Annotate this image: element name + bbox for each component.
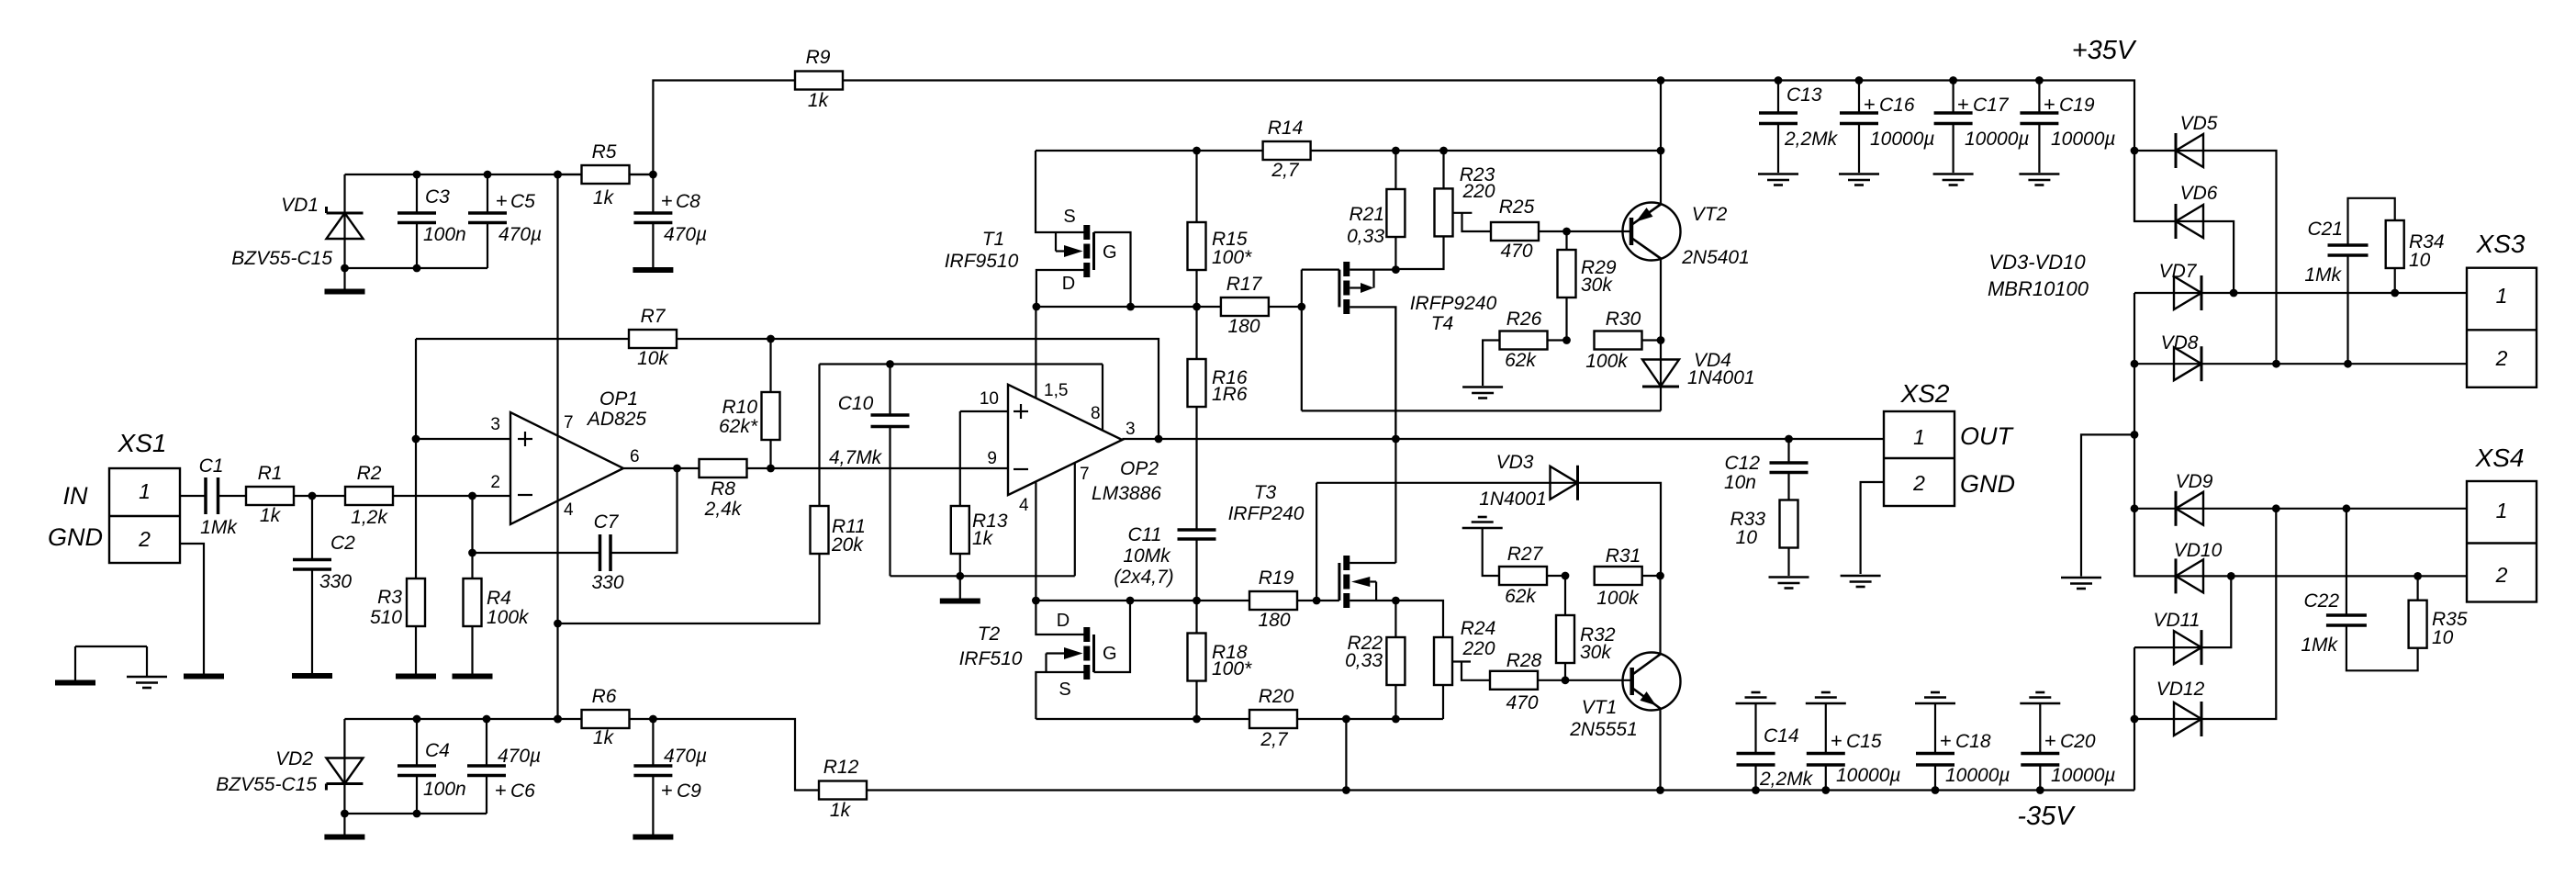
svg-text:IRFP240: IRFP240: [1228, 503, 1305, 524]
wire OP1 output: [623, 465, 700, 473]
resistor R4: [464, 578, 531, 674]
resistor R7: [416, 306, 677, 369]
svg-text:4: 4: [1019, 496, 1029, 515]
svg-text:VD12: VD12: [2156, 679, 2205, 700]
svg-text:2,4k: 2,4k: [704, 499, 743, 520]
resistor R22: [1345, 601, 1405, 719]
connector XS3: [2467, 230, 2537, 387]
svg-text:IN: IN: [63, 482, 89, 510]
wire source rail to -35V: [1345, 719, 1347, 791]
ground R26: [1462, 387, 1503, 399]
resistor R29: [1558, 231, 1617, 341]
op-amp OP1: [490, 388, 646, 524]
ground VD2: [324, 814, 364, 837]
ground XS1 pin2: [184, 674, 224, 679]
svg-text:3: 3: [1126, 420, 1136, 439]
resistor R30: [1585, 309, 1664, 372]
svg-text:4,7Mk: 4,7Mk: [829, 447, 883, 468]
svg-text:0,33: 0,33: [1345, 650, 1383, 671]
svg-text:180: 180: [1258, 610, 1290, 631]
resistor R28: [1490, 650, 1569, 713]
svg-text:OP1: OP1: [599, 388, 638, 410]
svg-text:1k: 1k: [593, 187, 615, 208]
diode VD8: [2134, 332, 2467, 381]
resistor R25: [1491, 197, 1571, 262]
resistor R1: [246, 463, 294, 526]
diode VD11: [2134, 576, 2231, 665]
svg-text:R5: R5: [592, 141, 617, 163]
svg-text:R14: R14: [1268, 118, 1304, 139]
svg-text:20k: 20k: [831, 534, 864, 556]
wire T2 source rail: [1036, 715, 1443, 724]
svg-text:7: 7: [1080, 465, 1090, 484]
transistor T3 IRFP240: [1228, 482, 1400, 608]
svg-text:S: S: [1063, 207, 1075, 227]
resistor R13: [951, 411, 1008, 576]
capacitor C22: [2301, 509, 2417, 671]
svg-text:BZV55-C15: BZV55-C15: [231, 248, 332, 269]
svg-text:C15: C15: [1846, 731, 1882, 752]
svg-text:R3: R3: [377, 587, 402, 608]
resistor R26: [1483, 309, 1571, 386]
svg-text:1R6: 1R6: [1212, 384, 1248, 405]
capacitor C19: [2020, 81, 2115, 174]
svg-text:VD2: VD2: [275, 748, 313, 769]
svg-text:2: 2: [1912, 471, 1925, 495]
svg-text:C22: C22: [2303, 590, 2339, 612]
svg-text:220: 220: [1462, 638, 1495, 659]
wire T3 gate node: [1313, 483, 1339, 605]
svg-text:R2: R2: [357, 463, 382, 484]
diode VD12: [2131, 509, 2277, 736]
svg-text:R12: R12: [823, 757, 859, 778]
svg-text:+: +: [495, 779, 507, 802]
svg-text:C2: C2: [330, 533, 355, 554]
svg-text:10Mk: 10Mk: [1123, 545, 1171, 567]
svg-text:1,2k: 1,2k: [351, 507, 388, 528]
svg-text:R7: R7: [641, 306, 666, 327]
svg-text:2: 2: [138, 527, 151, 551]
svg-text:G: G: [1103, 644, 1117, 664]
wire R1 to R2 with node: [294, 492, 345, 500]
svg-text:C10: C10: [838, 393, 874, 414]
resistor R18: [1188, 601, 1253, 719]
svg-text:C5: C5: [510, 191, 535, 212]
capacitor C18: [1916, 703, 2010, 791]
resistor R5: [558, 141, 654, 208]
wire R7 to OP2 output feedback: [677, 335, 1162, 444]
svg-text:2,2Mk: 2,2Mk: [1759, 769, 1814, 790]
capacitor C3: [398, 174, 466, 268]
svg-text:30k: 30k: [1580, 642, 1612, 663]
svg-text:XS3: XS3: [2476, 230, 2526, 258]
op-amp OP2: [980, 381, 1161, 515]
svg-text:10n: 10n: [1724, 472, 1756, 493]
svg-text:100*: 100*: [1212, 247, 1252, 268]
svg-text:1k: 1k: [808, 90, 830, 111]
svg-text:R1: R1: [258, 463, 283, 484]
svg-text:1: 1: [2496, 499, 2508, 522]
capacitor C7 feedback: [473, 468, 678, 593]
ground R33: [1769, 578, 1809, 589]
svg-text:R8: R8: [711, 478, 735, 500]
svg-text:100n: 100n: [423, 779, 466, 800]
svg-text:AD825: AD825: [586, 409, 647, 430]
svg-text:XS4: XS4: [2475, 444, 2525, 472]
wire OP1 supply vertical: [554, 171, 562, 724]
svg-text:IRF510: IRF510: [959, 648, 1023, 669]
net label -35V: [2017, 802, 2076, 831]
svg-text:D: D: [1062, 274, 1075, 294]
diode VD6: [2134, 151, 2234, 293]
wire chassis link: [75, 646, 147, 680]
zener diode VD2: [216, 748, 363, 814]
ground C2: [292, 673, 332, 679]
wire OP1 noninverting node: [412, 339, 510, 578]
svg-text:1k: 1k: [593, 727, 615, 748]
ground R3: [396, 674, 436, 679]
svg-text:30k: 30k: [1581, 275, 1613, 296]
capacitor C11: [1114, 524, 1215, 601]
svg-text:T3: T3: [1254, 482, 1277, 503]
transistor T2 IRF510: [959, 601, 1130, 719]
diode VD5: [2134, 113, 2277, 364]
ground VD1: [325, 268, 365, 292]
connector XS1: [48, 429, 180, 563]
svg-text:IRF9510: IRF9510: [945, 251, 1019, 272]
svg-text:+: +: [1831, 729, 1842, 752]
wire VT1 emitter to -35V: [1659, 709, 1661, 791]
zener diode VD1: [231, 195, 363, 269]
wire VT1 collector: [1659, 576, 1661, 655]
svg-text:330: 330: [319, 571, 352, 592]
diode VD7: [2134, 261, 2467, 310]
svg-text:S: S: [1058, 679, 1070, 700]
svg-text:R6: R6: [592, 686, 617, 707]
svg-text:XS1: XS1: [118, 429, 167, 457]
wire T1 source rail: [1036, 147, 1262, 155]
svg-text:2N5401: 2N5401: [1681, 247, 1750, 268]
svg-text:OP2: OP2: [1120, 458, 1159, 479]
wire R2 to OP1 inverting input: [393, 492, 510, 500]
ground C17: [1933, 174, 1974, 185]
svg-text:100n: 100n: [423, 224, 466, 245]
wire R11 bottom to negative supply: [558, 554, 820, 623]
svg-text:470µ: 470µ: [664, 224, 707, 245]
svg-text:330: 330: [591, 572, 623, 593]
ground R4: [453, 674, 493, 679]
svg-text:VD9: VD9: [2176, 471, 2213, 492]
svg-text:XS2: XS2: [1900, 379, 1950, 408]
wire ground line OP2 pin7: [890, 463, 1075, 580]
svg-text:LM3886: LM3886: [1092, 483, 1161, 504]
svg-text:10: 10: [2432, 627, 2454, 648]
svg-text:1Mk: 1Mk: [2301, 635, 2338, 656]
wire OP2 pins 1,5 vertical: [1035, 307, 1036, 398]
svg-text:MBR10100: MBR10100: [1988, 277, 2089, 300]
wire T3 T4 drain to output: [1394, 307, 1396, 563]
svg-text:7: 7: [564, 413, 574, 432]
svg-text:R4: R4: [487, 588, 511, 609]
resistor R8: [700, 459, 747, 520]
ground C13: [1758, 174, 1798, 185]
wire OP2 pin4 vertical: [1035, 481, 1036, 601]
svg-text:100*: 100*: [1212, 658, 1252, 679]
wire T1 drain rail: [1033, 303, 1221, 311]
transistor VT1 2N5551: [1565, 653, 1681, 741]
resistor R19: [1249, 567, 1316, 631]
svg-text:VD1: VD1: [281, 195, 319, 216]
svg-text:+: +: [2044, 729, 2056, 752]
svg-text:-35V: -35V: [2017, 802, 2076, 831]
svg-text:62k: 62k: [1505, 586, 1537, 607]
svg-text:C14: C14: [1764, 725, 1799, 747]
svg-text:+: +: [661, 189, 673, 212]
svg-text:100k: 100k: [487, 607, 530, 628]
svg-text:D: D: [1057, 611, 1070, 631]
wire OP2 output rail: [1122, 435, 1884, 444]
resistor R12: [819, 757, 867, 821]
capacitor C6: [467, 719, 541, 802]
ground R13: [940, 576, 980, 601]
wire XS1 pin1 to C1: [180, 495, 206, 497]
svg-text:1Mk: 1Mk: [2304, 264, 2342, 286]
resistor R15: [1188, 151, 1253, 307]
diode VD3: [1479, 452, 1661, 576]
ground center tap: [2061, 578, 2101, 589]
svg-text:2: 2: [490, 473, 500, 492]
svg-text:VT2: VT2: [1692, 204, 1728, 225]
wire VT2 collector: [1660, 259, 1662, 360]
svg-text:62k*: 62k*: [719, 416, 758, 437]
svg-text:IRFP9240: IRFP9240: [1410, 293, 1497, 314]
svg-text:C4: C4: [425, 740, 450, 761]
svg-text:C9: C9: [677, 781, 701, 802]
resistor R10: [719, 339, 780, 468]
resistor R16: [1188, 307, 1248, 530]
resistor R9: [653, 47, 843, 174]
capacitor C10: [829, 365, 910, 577]
svg-text:180: 180: [1227, 316, 1260, 337]
svg-text:VD10: VD10: [2174, 540, 2223, 561]
svg-text:1: 1: [139, 479, 151, 503]
svg-text:GND: GND: [48, 523, 103, 551]
svg-text:+: +: [1957, 93, 1969, 116]
svg-text:R30: R30: [1606, 309, 1641, 330]
svg-text:R31: R31: [1606, 545, 1641, 567]
svg-text:62k: 62k: [1505, 350, 1537, 371]
diode VD9: [2134, 471, 2467, 526]
svg-text:R24: R24: [1461, 618, 1496, 639]
svg-text:10000µ: 10000µ: [2051, 765, 2116, 786]
resistor R14: [1263, 118, 1311, 181]
svg-text:VD3: VD3: [1496, 452, 1534, 473]
wire R8 to OP2 inverting input: [747, 465, 1009, 473]
svg-text:2N5551: 2N5551: [1569, 719, 1638, 740]
connector XS2: [1884, 379, 2015, 506]
svg-text:2,7: 2,7: [1271, 160, 1300, 181]
wire center tap ground: [2081, 434, 2134, 576]
svg-text:470: 470: [1506, 692, 1538, 713]
diode VD4: [1642, 350, 1755, 410]
svg-text:3: 3: [490, 415, 500, 434]
svg-text:10k: 10k: [637, 348, 669, 369]
wire T4 gate node: [1297, 270, 1339, 411]
wire R14 to VT2 branch: [1311, 147, 1664, 155]
resistor R32: [1556, 576, 1616, 680]
ground R27 inverted: [1462, 517, 1503, 528]
wire XS1 pin2 to ground: [180, 544, 204, 674]
capacitor C15: [1807, 703, 1901, 791]
svg-text:VD11: VD11: [2154, 610, 2201, 631]
wire T3 gate to VD3: [1316, 482, 1550, 484]
svg-text:510: 510: [370, 607, 402, 628]
potentiometer R24: [1395, 601, 1495, 719]
svg-text:+: +: [661, 779, 673, 802]
svg-text:1: 1: [2496, 284, 2508, 308]
svg-text:1N4001: 1N4001: [1687, 367, 1755, 388]
svg-text:2: 2: [2495, 563, 2508, 587]
svg-text:10000µ: 10000µ: [1870, 129, 1935, 150]
svg-text:1: 1: [1913, 425, 1925, 449]
svg-text:R20: R20: [1259, 686, 1294, 707]
svg-text:C19: C19: [2059, 95, 2095, 116]
potentiometer R23: [1395, 151, 1495, 269]
resistor R31: [1595, 545, 1664, 609]
svg-text:C20: C20: [2060, 731, 2096, 752]
capacitor C13: [1759, 81, 1839, 174]
svg-text:470µ: 470µ: [664, 746, 707, 767]
wire negative rail bottom: [341, 774, 487, 817]
svg-text:C12: C12: [1724, 453, 1760, 474]
ground C20 inverted: [2020, 692, 2060, 703]
svg-text:2,7: 2,7: [1260, 729, 1289, 750]
capacitor C9: [633, 715, 707, 835]
svg-text:T4: T4: [1431, 313, 1454, 334]
resistor R17: [1221, 274, 1302, 337]
resistor R2: [345, 463, 393, 528]
svg-text:1k: 1k: [260, 505, 282, 526]
svg-text:+: +: [1864, 93, 1876, 116]
capacitor C21: [2304, 198, 2394, 364]
capacitor C4: [398, 719, 466, 814]
svg-text:220: 220: [1462, 181, 1495, 202]
net label VD3-VD10 MBR10100: [1988, 251, 2089, 300]
svg-text:470µ: 470µ: [498, 746, 541, 767]
wire C1 to R1: [218, 495, 247, 497]
svg-text:1,5: 1,5: [1044, 381, 1068, 400]
resistor R6: [582, 686, 654, 748]
resistor R11: [811, 506, 866, 556]
svg-text:4: 4: [564, 500, 574, 520]
transistor T4 IRFP9240: [1339, 262, 1497, 439]
wire R6 to R12: [653, 719, 819, 791]
transistor VT2 2N5401: [1567, 203, 1750, 269]
svg-text:GND: GND: [1960, 470, 2015, 498]
svg-text:C3: C3: [425, 186, 450, 208]
svg-text:R9: R9: [806, 47, 831, 68]
svg-text:R26: R26: [1506, 309, 1542, 330]
svg-text:R21: R21: [1349, 204, 1384, 225]
svg-text:VD5: VD5: [2180, 113, 2218, 134]
svg-text:2,2Mk: 2,2Mk: [1784, 129, 1839, 150]
capacitor C1: [199, 455, 239, 538]
wire VT2 emitter to +35V: [1660, 81, 1662, 205]
svg-text:+35V: +35V: [2072, 36, 2137, 65]
svg-text:8: 8: [1091, 404, 1101, 423]
connector XS4: [2467, 444, 2537, 602]
svg-text:100k: 100k: [1585, 351, 1629, 372]
svg-text:(2x4,7): (2x4,7): [1114, 567, 1173, 588]
wire R4 node: [468, 496, 476, 578]
svg-text:1N4001: 1N4001: [1479, 489, 1547, 510]
svg-text:T2: T2: [978, 623, 1001, 645]
svg-text:1Mk: 1Mk: [200, 517, 238, 538]
wire C10 mute rail: [820, 360, 1103, 506]
resistor R3: [370, 578, 425, 674]
svg-text:T1: T1: [982, 229, 1005, 250]
resistor R34: [2386, 220, 2445, 293]
capacitor C20: [2021, 703, 2115, 791]
ground C18 inverted: [1915, 692, 1955, 703]
resistor R27: [1483, 528, 1570, 607]
ground XS2: [1841, 576, 1881, 587]
svg-text:C7: C7: [594, 511, 620, 533]
svg-text:100k: 100k: [1596, 588, 1640, 609]
svg-text:VD6: VD6: [2180, 183, 2218, 204]
svg-text:C16: C16: [1879, 95, 1915, 116]
svg-text:470µ: 470µ: [498, 224, 542, 245]
svg-text:C21: C21: [2307, 219, 2343, 240]
svg-text:VT1: VT1: [1582, 697, 1618, 718]
ground chassis bar: [55, 680, 95, 686]
svg-text:10: 10: [1736, 527, 1758, 548]
svg-text:10: 10: [2409, 250, 2431, 271]
svg-text:R10: R10: [722, 397, 757, 418]
resistor R35: [2409, 576, 2468, 648]
ground C9: [633, 835, 673, 840]
svg-text:10: 10: [980, 389, 999, 409]
wire T2 gate rail: [1032, 597, 1249, 605]
svg-text:R25: R25: [1499, 197, 1535, 218]
wire -35V rail: [867, 719, 2134, 794]
capacitor C5: [468, 174, 542, 245]
ground C8: [633, 267, 673, 273]
ground C16: [1839, 174, 1879, 185]
svg-text:VD8: VD8: [2161, 332, 2199, 354]
svg-text:R28: R28: [1506, 650, 1542, 671]
wire OP2 noninverting input: [960, 410, 1008, 412]
resistor R21: [1347, 151, 1405, 274]
resistor R33: [1730, 500, 1798, 577]
wire +35V rail: [843, 76, 2138, 221]
wire VD4 to T4 gate: [1302, 410, 1661, 411]
wire zener rail bottom: [341, 223, 487, 272]
resistor R20: [1249, 686, 1297, 750]
capacitor C8: [633, 171, 707, 267]
svg-text:C11: C11: [1128, 524, 1162, 545]
svg-text:10000µ: 10000µ: [2051, 129, 2116, 150]
svg-text:R27: R27: [1507, 544, 1544, 565]
svg-text:VD3-VD10: VD3-VD10: [1988, 251, 2086, 274]
svg-text:VD7: VD7: [2159, 261, 2198, 282]
svg-text:C6: C6: [510, 781, 535, 802]
svg-text:C17: C17: [1973, 95, 2010, 116]
svg-text:+: +: [2044, 93, 2055, 116]
svg-text:1k: 1k: [972, 528, 994, 549]
wire XS2 pin2 to ground: [1861, 482, 1884, 574]
ground C15 inverted: [1806, 692, 1846, 703]
